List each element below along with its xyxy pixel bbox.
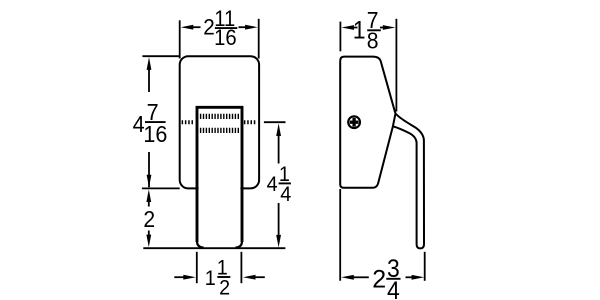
svg-text:16: 16 bbox=[143, 121, 167, 147]
svg-text:2: 2 bbox=[203, 14, 215, 40]
svg-text:2: 2 bbox=[143, 206, 155, 232]
svg-text:4: 4 bbox=[280, 182, 291, 206]
svg-text:8: 8 bbox=[367, 28, 379, 54]
svg-text:4: 4 bbox=[387, 277, 400, 300]
svg-text:2: 2 bbox=[372, 265, 386, 293]
svg-text:1: 1 bbox=[353, 17, 366, 45]
svg-text:1: 1 bbox=[205, 266, 216, 290]
svg-text:2: 2 bbox=[219, 276, 230, 300]
svg-text:4: 4 bbox=[267, 172, 278, 196]
svg-text:16: 16 bbox=[214, 26, 237, 50]
